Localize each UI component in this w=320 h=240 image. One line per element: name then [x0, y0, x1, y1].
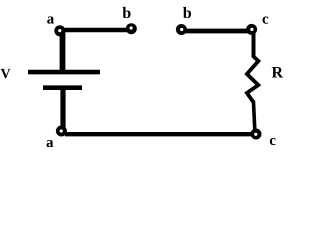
label a (top node) — [47, 16, 54, 23]
wire node a (top) to battery positive plate — [60, 32, 66, 72]
label V (battery) — [1, 69, 11, 78]
wire a to b (top left segment) — [62, 28, 127, 33]
bottom wire a to c — [65, 132, 253, 136]
node b (right, open switch terminal) — [176, 24, 187, 35]
wire resistor to node c (bottom) — [253, 101, 254, 131]
label b (right of switch gap) — [183, 7, 191, 18]
label R — [272, 67, 283, 77]
battery V positive plate (long) — [28, 70, 100, 75]
label c (bottom right) — [270, 138, 276, 145]
battery V negative plate (short) — [43, 85, 82, 90]
node c (bottom terminal) — [251, 129, 262, 140]
label a (bottom left) — [46, 140, 53, 147]
node a (bottom terminal) — [56, 126, 67, 137]
node a (top terminal) — [54, 25, 65, 36]
wire battery negative plate to node a (bottom) — [60, 88, 65, 128]
label b (left of switch gap) — [123, 7, 131, 18]
resistor R (zigzag) — [247, 57, 259, 103]
wire c down to resistor — [252, 31, 256, 58]
wire b to c (top right segment) — [182, 29, 250, 34]
node b (left, open switch terminal) — [126, 23, 137, 34]
label c (top right) — [263, 17, 269, 24]
node c (top terminal) — [246, 24, 257, 35]
